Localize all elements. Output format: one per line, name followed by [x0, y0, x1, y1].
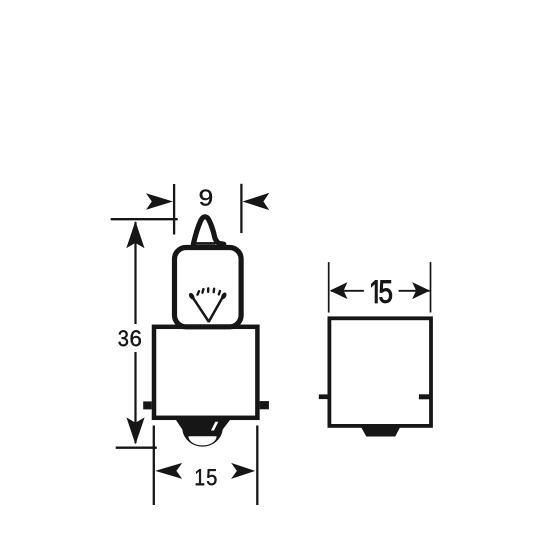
filament end beads — [188, 292, 228, 301]
dimension 15 right: right arrow — [412, 282, 430, 299]
dimension 15 bottom: label — [196, 469, 217, 485]
dimension 9: right extension line — [240, 184, 242, 233]
pedestal right pin — [419, 394, 430, 399]
dimension 36: top extension line — [111, 218, 178, 220]
dimension 36: dimension line lower segment — [134, 352, 136, 443]
dimension 36: up arrow — [126, 221, 144, 248]
dimension 15 right: left shaft — [331, 290, 364, 292]
dimension 9: left arrow — [146, 193, 173, 210]
filament support wires (V) — [193, 298, 222, 322]
dimension 15 right: left extension line — [328, 262, 330, 312]
dimension 9: label — [200, 190, 212, 206]
solder contact (front view) — [175, 419, 230, 447]
dimension 36: down arrow — [126, 417, 144, 444]
base left bayonet tab — [143, 401, 152, 409]
glass seal line under tip — [192, 242, 216, 245]
dimension 15 right: left arrow — [330, 282, 348, 299]
dimension 36: label — [119, 330, 141, 346]
dimension 15 bottom: left arrow — [155, 463, 182, 479]
dimension 15 right: label — [371, 281, 391, 303]
dimension 15 right: right shaft — [399, 290, 430, 292]
glass pinch tip — [193, 217, 224, 245]
bulb glass envelope — [175, 248, 242, 327]
pedestal solder contact — [361, 427, 400, 437]
dimension 15 bottom: left extension line — [153, 426, 155, 506]
dimension 36: dimension line upper segment — [134, 222, 136, 324]
pedestal square (base top view) — [329, 318, 431, 426]
dimension 15 bottom: right arrow — [231, 463, 255, 479]
base right bayonet tab — [260, 401, 269, 409]
filament coil dashes — [198, 288, 221, 294]
metal base (front view) — [154, 327, 257, 418]
dimension 15 right: right extension line — [430, 262, 432, 312]
dimension 9: right arrow — [243, 193, 270, 210]
dimension 9: left extension line — [173, 184, 175, 235]
pedestal left pin — [319, 394, 328, 399]
dimension 15 bottom: right extension line — [256, 426, 258, 506]
dimension 36: bottom extension line — [116, 447, 157, 449]
